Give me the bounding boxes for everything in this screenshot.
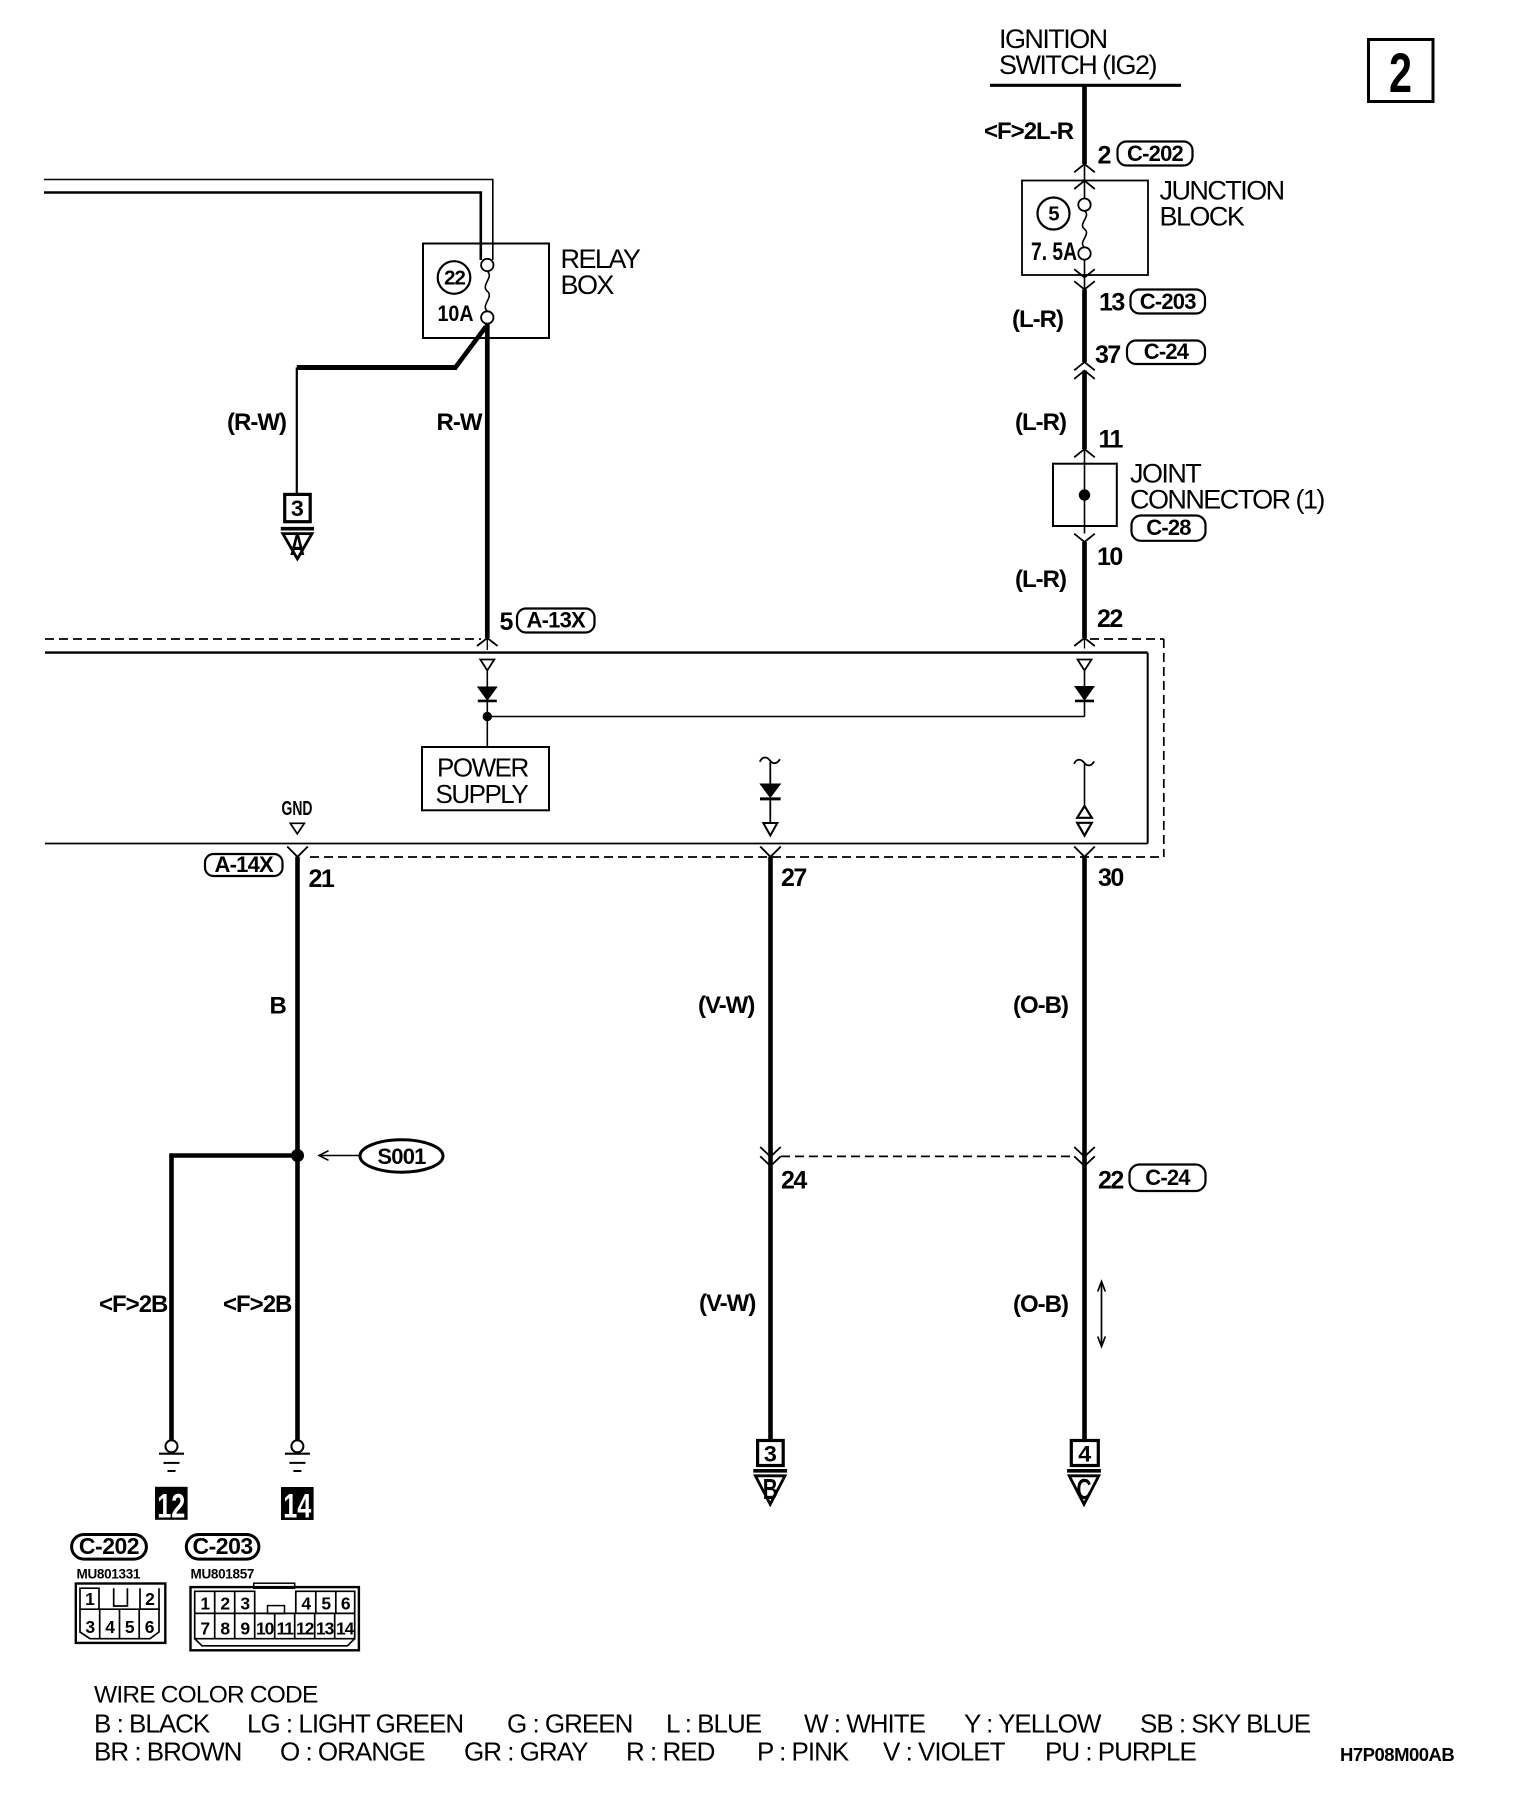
- connector C-28: [1132, 515, 1206, 541]
- svg-text:12: 12: [296, 1619, 315, 1639]
- svg-text:CONNECTOR (1): CONNECTOR (1): [1130, 485, 1324, 515]
- svg-text:(O-B): (O-B): [1013, 992, 1068, 1019]
- svg-text:B: B: [763, 1474, 778, 1506]
- wire from other page (thin): [44, 180, 493, 261]
- svg-text:4: 4: [301, 1594, 311, 1614]
- fuse number circle 5: [1038, 198, 1070, 230]
- ECU pin chevron at 21: [287, 847, 308, 857]
- svg-text:BR : BROWN: BR : BROWN: [94, 1737, 241, 1767]
- svg-text:A-14X: A-14X: [215, 852, 274, 877]
- connector C-203 pin face: [191, 1583, 359, 1650]
- bidirectional pin triangle up: [1077, 806, 1092, 818]
- svg-text:30: 30: [1098, 864, 1123, 892]
- svg-text:WIRE COLOR CODE: WIRE COLOR CODE: [94, 1682, 318, 1709]
- svg-text:POWER: POWER: [437, 753, 528, 783]
- svg-text:9: 9: [240, 1619, 250, 1639]
- ECU inner box right edge: [1147, 653, 1149, 844]
- svg-text:BLOCK: BLOCK: [1160, 202, 1245, 232]
- svg-text:11: 11: [1099, 426, 1124, 454]
- ignition switch bus bar: [990, 84, 1181, 87]
- GND pin triangle: [290, 823, 304, 834]
- ECU dashed boundary bottom: [310, 856, 1164, 858]
- svg-text:11: 11: [276, 1619, 294, 1639]
- ground ref 12: [155, 1487, 188, 1526]
- wire IG2 feed (thick): [1082, 86, 1087, 164]
- svg-text:27: 27: [781, 864, 806, 892]
- wire diode bus: [487, 716, 1084, 718]
- power supply box: [422, 747, 549, 810]
- svg-text:A-13X: A-13X: [527, 608, 586, 633]
- terminal box 3: [285, 494, 311, 521]
- wire L-R thick 37 to 11: [1082, 371, 1087, 449]
- svg-text:C-203: C-203: [193, 1533, 253, 1559]
- svg-text:37: 37: [1095, 341, 1120, 369]
- svg-text:4: 4: [105, 1617, 115, 1637]
- ECU inner box top edge: [45, 651, 1148, 653]
- svg-text:C-24: C-24: [1144, 339, 1190, 364]
- svg-text:SUPPLY: SUPPLY: [436, 779, 529, 809]
- svg-text:10: 10: [1097, 543, 1122, 571]
- wire into junction block: [1084, 164, 1086, 199]
- connector C-203: [1131, 289, 1206, 314]
- svg-text:C-24: C-24: [1145, 1165, 1191, 1190]
- svg-text:O : ORANGE: O : ORANGE: [280, 1737, 425, 1767]
- svg-text:24: 24: [781, 1167, 807, 1195]
- svg-text:GND: GND: [282, 798, 313, 820]
- internal branch 30 squiggle: [1074, 760, 1094, 766]
- svg-text:22: 22: [1097, 605, 1122, 633]
- wire fuse to box bottom: [1084, 260, 1086, 290]
- ECU dashed boundary right side: [1163, 639, 1165, 857]
- svg-text:PU : PURPLE: PU : PURPLE: [1045, 1737, 1196, 1767]
- svg-text:(V-W): (V-W): [699, 1290, 755, 1317]
- svg-text:3: 3: [85, 1617, 95, 1637]
- svg-text:B: B: [270, 993, 287, 1020]
- wire to diode: [1084, 671, 1086, 687]
- off-page arrow B: [753, 1471, 787, 1506]
- svg-text:R : RED: R : RED: [626, 1737, 715, 1767]
- svg-text:13: 13: [316, 1619, 335, 1639]
- page number 2 box: [1369, 40, 1434, 105]
- svg-text:C-202: C-202: [79, 1533, 139, 1559]
- wire branch 30: [1084, 764, 1086, 806]
- ECU pin chevron at 5: [477, 638, 498, 646]
- connector label C-203: [186, 1533, 259, 1559]
- label RELAY BOX: [561, 244, 641, 300]
- svg-text:(L-R): (L-R): [1015, 409, 1066, 436]
- svg-text:S001: S001: [377, 1144, 426, 1169]
- svg-text:C-202: C-202: [1127, 141, 1183, 166]
- connector chevron below fuse: [1074, 269, 1095, 277]
- wire color code legend: [94, 1682, 1311, 1767]
- connector double chevron at C-24: [1074, 362, 1095, 370]
- joint connector chevron top: [1074, 449, 1095, 457]
- wire from other page (thick): [44, 193, 481, 261]
- fuse number circle 22: [438, 261, 471, 294]
- svg-text:MU801331: MU801331: [77, 1567, 141, 1582]
- input pin triangle at 22: [1078, 660, 1092, 671]
- connector C-24: [1127, 339, 1205, 364]
- svg-text:LG : LIGHT GREEN: LG : LIGHT GREEN: [247, 1709, 463, 1739]
- svg-text:(L-R): (L-R): [1015, 566, 1066, 593]
- svg-text:GR : GRAY: GR : GRAY: [464, 1737, 588, 1767]
- node diode junction: [483, 712, 491, 720]
- svg-text:8: 8: [220, 1619, 230, 1639]
- svg-text:22: 22: [444, 267, 465, 290]
- joint connector chevron bottom: [1074, 534, 1095, 542]
- label JUNCTION BLOCK: [1160, 176, 1284, 232]
- relay box: [423, 244, 549, 339]
- ECU pin chevron at 22: [1074, 638, 1095, 646]
- svg-text:H7P08M00AB: H7P08M00AB: [1340, 1744, 1454, 1765]
- input pin triangle at 5: [480, 660, 494, 671]
- svg-text:(V-W): (V-W): [698, 992, 754, 1019]
- svg-text:12: 12: [157, 1488, 185, 1526]
- svg-text:<F>2B: <F>2B: [223, 1291, 292, 1318]
- wire V-W (27 down): [768, 857, 773, 1441]
- splice node S001 dot: [292, 1150, 304, 1162]
- svg-text:C: C: [1077, 1474, 1092, 1506]
- svg-text:10: 10: [256, 1619, 275, 1639]
- wire branch horizontal: [297, 365, 457, 370]
- svg-text:4: 4: [1078, 1442, 1092, 1467]
- svg-text:W : WHITE: W : WHITE: [804, 1709, 926, 1739]
- terminal box 4: [1071, 1441, 1098, 1467]
- wire to diode: [769, 762, 771, 784]
- svg-text:13: 13: [1099, 289, 1124, 317]
- connector chevron at junction block edge: [1074, 181, 1095, 189]
- svg-text:C-28: C-28: [1146, 515, 1191, 540]
- svg-text:3: 3: [240, 1594, 250, 1614]
- svg-text:L : BLUE: L : BLUE: [666, 1709, 762, 1739]
- connector A-13X: [517, 608, 595, 633]
- connector C-202: [1118, 141, 1193, 166]
- svg-text:2: 2: [1389, 41, 1412, 104]
- svg-text:G : GREEN: G : GREEN: [507, 1709, 632, 1739]
- ground symbol left: [159, 1440, 184, 1471]
- ECU dashed boundary top right segment: [1090, 638, 1164, 640]
- svg-text:V : VIOLET: V : VIOLET: [883, 1737, 1006, 1767]
- connector chevron at C-202: [1074, 164, 1095, 172]
- splice S001 callout: [319, 1140, 443, 1172]
- svg-text:5: 5: [321, 1594, 331, 1614]
- off-page arrow A: [281, 529, 314, 562]
- connector label C-202: [72, 1533, 147, 1559]
- svg-text:<F>2L-R: <F>2L-R: [984, 118, 1074, 145]
- svg-text:6: 6: [341, 1594, 351, 1614]
- svg-text:3: 3: [764, 1442, 777, 1467]
- joint connector junction dot: [1079, 490, 1089, 500]
- bidirectional arrow marker: [1098, 1282, 1106, 1347]
- svg-text:R-W: R-W: [437, 409, 483, 436]
- svg-text:14: 14: [336, 1619, 355, 1639]
- svg-text:5: 5: [125, 1617, 135, 1637]
- internal branch 27 squiggle: [760, 758, 780, 764]
- svg-text:7. 5A: 7. 5A: [1031, 238, 1077, 266]
- bidirectional pin triangle down: [1077, 823, 1092, 836]
- svg-text:<F>2B: <F>2B: [99, 1291, 168, 1318]
- diode D3: [760, 784, 781, 799]
- svg-text:C-203: C-203: [1140, 289, 1196, 314]
- svg-text:5: 5: [1048, 203, 1059, 226]
- svg-text:5: 5: [500, 608, 514, 636]
- diode D1: [478, 687, 497, 701]
- svg-text:(R-W): (R-W): [227, 409, 286, 436]
- harness double chevron at 24: [760, 1147, 781, 1157]
- svg-text:Y : YELLOW: Y : YELLOW: [964, 1709, 1102, 1739]
- wire branch to second ground: [172, 1156, 298, 1441]
- connector C-24 lower: [1130, 1165, 1206, 1192]
- wire O-B (30 down): [1082, 857, 1087, 1441]
- wire L-R thick 10 to 22: [1082, 542, 1087, 638]
- ground ref 14: [281, 1487, 314, 1526]
- svg-text:MU801857: MU801857: [191, 1567, 255, 1582]
- label JOINT CONNECTOR (1): [1130, 459, 1324, 515]
- wire branch down to arrow A: [296, 368, 298, 495]
- svg-text:P : PINK: P : PINK: [757, 1737, 850, 1767]
- dashed harness tie line: [781, 1155, 1074, 1157]
- svg-text:14: 14: [283, 1488, 311, 1526]
- ECU inner box bottom edge: [45, 843, 1148, 845]
- label IGNITION SWITCH (IG2): [999, 24, 1156, 80]
- svg-text:1: 1: [200, 1594, 210, 1614]
- diode D2: [1075, 687, 1094, 701]
- svg-text:(O-B): (O-B): [1013, 1291, 1068, 1318]
- svg-text:BOX: BOX: [561, 270, 615, 300]
- svg-text:A: A: [290, 530, 305, 562]
- fuse 10A symbol: [481, 259, 493, 324]
- fuse 7.5A symbol: [1078, 199, 1090, 260]
- joint connector U box: [1053, 464, 1117, 526]
- junction block box: [1022, 181, 1148, 276]
- ECU pin chevron at 30: [1074, 847, 1095, 857]
- output pin triangle at 27: [763, 823, 777, 836]
- wire branch diagonal: [455, 327, 486, 369]
- svg-text:SB : SKY BLUE: SB : SKY BLUE: [1140, 1709, 1311, 1739]
- wire R-W thick down to ECU: [485, 324, 490, 639]
- wire to diode: [486, 671, 488, 688]
- connector C-202 pin face: [76, 1584, 166, 1643]
- svg-text:21: 21: [309, 865, 335, 893]
- svg-text:2: 2: [145, 1589, 155, 1609]
- wire B (21 to ground): [295, 857, 300, 1441]
- svg-text:7: 7: [200, 1619, 209, 1639]
- svg-text:SWITCH (IG2): SWITCH (IG2): [999, 50, 1156, 80]
- svg-text:22: 22: [1098, 1167, 1123, 1195]
- svg-text:2: 2: [1098, 142, 1111, 170]
- ground symbol right: [285, 1440, 310, 1471]
- svg-text:2: 2: [220, 1594, 230, 1614]
- wire thin through joint connector: [1084, 449, 1086, 534]
- harness double chevron at 22: [1074, 1147, 1095, 1157]
- svg-text:10A: 10A: [438, 301, 474, 326]
- terminal box 3 lower: [758, 1441, 784, 1467]
- connector A-14X: [205, 852, 283, 877]
- svg-text:(L-R): (L-R): [1012, 306, 1063, 333]
- svg-text:1: 1: [85, 1589, 95, 1609]
- svg-text:6: 6: [145, 1617, 155, 1637]
- svg-text:B : BLACK: B : BLACK: [94, 1709, 211, 1739]
- connector chevron at C-203: [1074, 281, 1095, 289]
- wire L-R thick 13 to 37: [1082, 290, 1087, 363]
- off-page arrow C: [1067, 1471, 1101, 1506]
- wire to power supply: [486, 717, 488, 748]
- svg-text:3: 3: [291, 496, 304, 521]
- ECU dashed boundary top left segment: [45, 638, 481, 640]
- ECU pin chevron at 27: [760, 847, 781, 857]
